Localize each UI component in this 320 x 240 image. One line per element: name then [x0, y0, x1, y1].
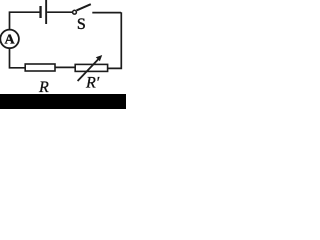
svg-text:A: A	[5, 33, 16, 48]
svg-text:R′: R′	[85, 75, 100, 92]
wire between R and R'	[55, 66, 75, 68]
switch S blade	[77, 4, 91, 10]
wire: battery to switch	[47, 11, 72, 13]
svg-text:S: S	[77, 16, 86, 33]
wire below ammeter to bottom-left corner and to R	[10, 48, 26, 68]
black bar bottom	[0, 94, 126, 109]
wire top-left: corner to battery	[10, 12, 40, 29]
wire right side down	[107, 12, 122, 68]
ammeter A circle	[0, 30, 19, 49]
battery short plate (negative)	[39, 6, 41, 18]
rheostat arrow shaft	[78, 58, 100, 81]
rheostat arrowhead	[96, 55, 102, 61]
resistor R box	[25, 64, 55, 71]
battery long plate (positive)	[45, 0, 47, 24]
svg-text:R: R	[38, 79, 49, 96]
switch S pivot circle	[73, 10, 77, 14]
wire: switch to top-right corner	[92, 12, 121, 14]
rheostat R' box	[75, 64, 107, 71]
